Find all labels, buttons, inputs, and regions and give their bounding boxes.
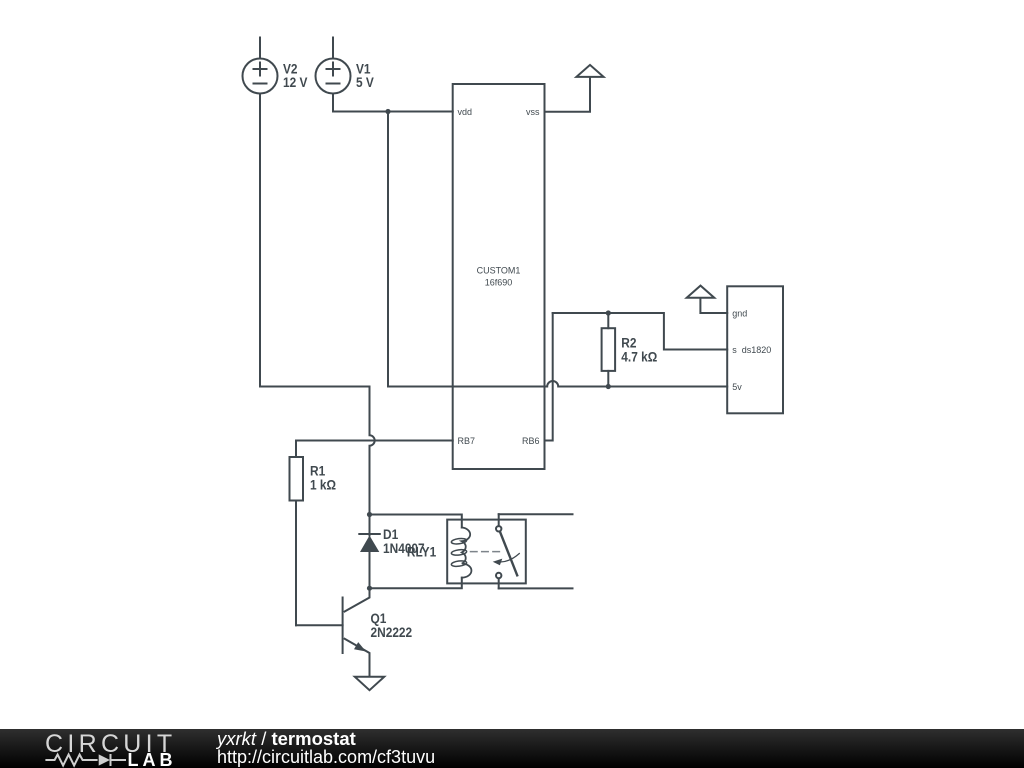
svg-text:12 V: 12 V	[283, 74, 308, 90]
node R2 bottom junction	[606, 384, 611, 389]
wire relay switch NO right stub	[499, 587, 573, 589]
svg-text:gnd: gnd	[732, 309, 747, 319]
svg-text:2N2222: 2N2222	[371, 624, 413, 640]
label R2 4.7 kΩ	[621, 334, 657, 364]
wire relay coil bottom to D1 bottom	[370, 578, 462, 589]
svg-text:5 V: 5 V	[356, 74, 374, 90]
footer bar	[0, 729, 1024, 768]
voltage source V1	[316, 38, 351, 94]
power flag GND pin	[687, 286, 715, 298]
pin vdd label	[458, 107, 541, 446]
svg-text:vss: vss	[526, 107, 540, 117]
ground	[355, 677, 384, 690]
wire 5V rail down and right to 5v pin (hop over RB6 wire)	[388, 112, 727, 387]
svg-text:RB7: RB7	[458, 436, 476, 446]
voltage source V2	[243, 38, 278, 94]
wire relay switch common right stub	[499, 513, 573, 515]
wire RB7 (hop over V2 column)	[296, 440, 453, 442]
wire RB6 up and over to s pin	[545, 313, 553, 441]
transistor Q1	[343, 588, 370, 676]
wire V2 minus down and over to relay column	[260, 94, 375, 515]
svg-text:s ds1820: s ds1820	[732, 345, 771, 355]
label V1 5 V	[356, 61, 374, 90]
resistor R2	[602, 313, 616, 387]
label D1 1N4007	[383, 526, 425, 556]
wire gnd pin to power flag	[700, 299, 727, 313]
IC U1 CUSTOM1 16f690 box	[453, 84, 545, 469]
footer line 1: yxrkt / termostat	[217, 730, 356, 747]
node D1 bottom junction	[367, 586, 372, 591]
diode D1	[359, 515, 380, 589]
label V2 12 V	[283, 61, 308, 90]
svg-text:1 kΩ: 1 kΩ	[310, 477, 336, 493]
svg-text:RB6: RB6	[522, 436, 540, 446]
wire vss to power flag	[545, 78, 591, 112]
CircuitLab logo	[0, 729, 200, 768]
svg-text:4.7 kΩ: 4.7 kΩ	[621, 348, 657, 364]
svg-text:RLY1: RLY1	[407, 543, 436, 559]
svg-text:CUSTOM1: CUSTOM1	[477, 266, 521, 276]
label Q1 2N2222	[371, 610, 413, 640]
svg-text:LAB: LAB	[128, 750, 177, 768]
svg-text:5v: 5v	[732, 382, 742, 392]
pin labels gnd, s ds1820, 5v	[732, 309, 771, 393]
label R1 1 kΩ	[310, 463, 336, 493]
node R2 top junction	[606, 310, 611, 315]
svg-text:vdd: vdd	[458, 107, 473, 117]
power flag VSS	[576, 65, 603, 77]
node 5V junction	[385, 109, 390, 114]
wire R1 bottom to Q1 base	[296, 624, 343, 626]
svg-text:16f690: 16f690	[485, 278, 513, 288]
wire D1 top to relay coil	[370, 515, 462, 528]
resistor R1	[290, 441, 304, 626]
wire V1 minus to vdd	[333, 94, 453, 112]
footer line 2: url	[217, 749, 435, 766]
relay RLY1	[447, 514, 526, 588]
node D1 top junction	[367, 512, 372, 517]
box U2 ds1820 sensor	[727, 286, 783, 413]
